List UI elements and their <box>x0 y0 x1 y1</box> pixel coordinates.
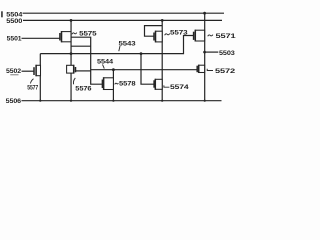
svg-text:5578: 5578 <box>119 80 136 87</box>
svg-text:5573: 5573 <box>170 30 188 37</box>
svg-text:5574: 5574 <box>170 84 189 91</box>
svg-text:5502: 5502 <box>6 68 21 75</box>
svg-text:5503: 5503 <box>219 50 235 57</box>
svg-text:5500: 5500 <box>6 18 22 25</box>
svg-text:5543: 5543 <box>119 40 136 47</box>
svg-text:5576: 5576 <box>75 85 92 92</box>
svg-text:5571: 5571 <box>216 33 236 40</box>
svg-text:5544: 5544 <box>97 59 113 66</box>
svg-text:5572: 5572 <box>215 68 235 75</box>
svg-text:5506: 5506 <box>6 98 22 105</box>
svg-text:5575: 5575 <box>79 30 97 37</box>
svg-text:5577: 5577 <box>27 84 38 91</box>
svg-text:5501: 5501 <box>7 36 22 43</box>
